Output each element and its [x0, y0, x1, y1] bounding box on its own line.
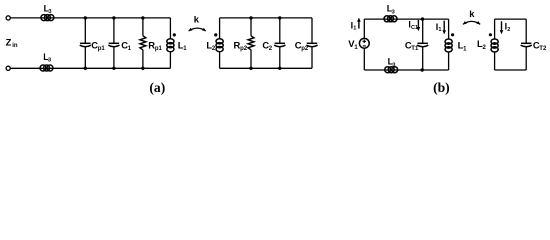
wire top rail (a) right [220, 17, 312, 19]
label CT1 [405, 39, 419, 52]
wire bottom rail (b) [364, 69, 448, 71]
svg-text:k: k [469, 8, 475, 19]
capacitor Cp2 stem top [311, 18, 313, 43]
wire left branch bottom (b) [363, 48, 365, 70]
label C2 [262, 39, 272, 52]
capacitor CT2 stem bottom [525, 47, 527, 70]
svg-text:1: 1 [353, 26, 356, 32]
svg-text:1: 1 [438, 27, 441, 33]
label Zin [6, 36, 18, 49]
current arrow I1 (source) [357, 18, 361, 29]
wire bottom rail (a) right [220, 67, 312, 69]
inductor L2 (a) stem top [219, 18, 221, 39]
resistor Rp2 stem top [250, 18, 252, 36]
label Cp2 [295, 39, 309, 52]
resistor Rp1 stem top [142, 18, 144, 36]
label k (b) [469, 8, 475, 19]
caption (a) [149, 80, 165, 96]
polarity dot L1 (a) [173, 33, 176, 36]
svg-text:p2: p2 [240, 46, 248, 52]
wire top rail (b) [364, 18, 448, 20]
svg-text:k: k [194, 13, 200, 24]
capacitor CT2 [521, 43, 532, 46]
node C1-bottom [112, 67, 115, 70]
svg-text:3: 3 [48, 9, 51, 15]
resistor Rp1 [140, 36, 146, 50]
svg-text:(b): (b) [433, 80, 450, 96]
capacitor Cp1 stem top [84, 18, 86, 43]
wire left branch top (b) [363, 19, 365, 38]
coupling arc k (b) [463, 21, 480, 24]
label I1 (L1 branch) [436, 22, 442, 33]
wire bottom rail (a) left [10, 67, 170, 69]
resistor Rp2 stem bottom [250, 50, 252, 69]
coupling arc k (a) [189, 28, 206, 31]
capacitor Cp1 stem bottom [84, 47, 86, 69]
wire L2 branch bottom (b) [494, 52, 496, 70]
node Rp2-bottom [249, 67, 252, 70]
inductor L1 (a) [167, 39, 174, 52]
node Cp1-top [84, 16, 87, 19]
capacitor Cp1 [80, 43, 91, 46]
svg-text:2: 2 [507, 27, 510, 33]
svg-text:p1: p1 [98, 46, 106, 52]
resistor Rp2 [248, 36, 254, 50]
capacitor C1 stem top [113, 18, 115, 43]
capacitor CT1 [417, 43, 428, 46]
node CT1-top [421, 17, 424, 20]
wire bottom rail (b right loop) [495, 69, 527, 71]
label L2 (b) [477, 38, 487, 51]
node C2-top [278, 16, 281, 19]
capacitor C2 [274, 43, 285, 46]
inductor L1 (b) [445, 39, 452, 52]
label k (a) [194, 13, 200, 24]
inductor L1 (a) stem bottom [169, 52, 171, 68]
label C1 [121, 39, 131, 52]
input terminal (bottom) [6, 66, 10, 70]
node Cp1-bottom [84, 67, 87, 70]
inductor L3 (top, b) [384, 16, 397, 22]
node CT1-bottom [421, 68, 424, 71]
inductor L2 (a) [216, 39, 223, 52]
current arrow I1 (L1 branch) [442, 21, 446, 35]
label V1 [348, 38, 358, 51]
capacitor CT1 stem top [422, 19, 424, 43]
node C2-bottom [278, 67, 281, 70]
label L3 (bottom, a) [43, 52, 51, 64]
polarity dot L1 (b) [451, 33, 454, 36]
label L3 (bottom, b) [388, 57, 396, 69]
inductor L1 (b) stem top [448, 19, 450, 39]
polarity dot L2 (b) [489, 33, 492, 36]
inductor L1 (b) stem bottom [448, 52, 450, 70]
inductor L1 (a) stem top [169, 18, 171, 39]
label I2 [505, 22, 511, 33]
inductor L3 (bottom, a) [40, 65, 53, 71]
input terminal (top) [6, 16, 10, 20]
current arrow IC1 [417, 20, 421, 31]
resistor Rp1 stem bottom [142, 50, 144, 69]
capacitor C1 [108, 43, 119, 46]
capacitor C1 stem bottom [113, 47, 115, 69]
svg-text:3: 3 [392, 62, 395, 68]
node Rp2-top [249, 16, 252, 19]
label CT2 [533, 39, 547, 52]
wire L2 branch top (b) [494, 19, 496, 39]
label Cp1 [91, 39, 105, 52]
inductor L2 (a) stem bottom [219, 52, 221, 68]
svg-text:p2: p2 [301, 46, 309, 52]
svg-text:(a): (a) [149, 80, 165, 96]
svg-text:T2: T2 [539, 46, 547, 52]
label L3 (top, a) [44, 3, 52, 15]
label Rp2 [234, 39, 248, 52]
label Rp1 [148, 39, 162, 52]
label L1 (a) [178, 39, 188, 52]
label IC1 [408, 19, 418, 31]
svg-text:3: 3 [48, 58, 51, 64]
capacitor CT2 stem top [525, 19, 527, 43]
label L1 (b) [458, 40, 468, 53]
capacitor Cp2 stem bottom [311, 47, 313, 69]
caption (b) [433, 80, 450, 96]
inductor L3 (bottom, b) [385, 67, 398, 73]
source V1 [359, 38, 369, 48]
inductor L2 (b) [491, 39, 498, 52]
polarity dot L2 (a) [214, 33, 217, 36]
wire top rail (a) left [10, 17, 170, 19]
label I1 (source) [351, 20, 357, 31]
svg-text:p1: p1 [155, 46, 163, 52]
svg-text:in: in [12, 43, 18, 49]
capacitor C2 stem bottom [279, 47, 281, 69]
svg-text:3: 3 [392, 9, 395, 15]
inductor L3 (top, a) [41, 15, 54, 21]
label L2 (a) [206, 39, 216, 52]
node C1-top [112, 16, 115, 19]
capacitor CT1 stem bottom [422, 47, 424, 70]
wire top rail (b right loop) [495, 18, 527, 20]
svg-text:Z: Z [6, 36, 12, 47]
current arrow I2 [500, 21, 504, 34]
node Rp1-bottom [141, 67, 144, 70]
capacitor C2 stem top [279, 18, 281, 43]
svg-text:T1: T1 [411, 46, 419, 52]
node Rp1-top [141, 16, 144, 19]
capacitor Cp2 [306, 43, 317, 46]
label L3 (top, b) [387, 4, 395, 16]
